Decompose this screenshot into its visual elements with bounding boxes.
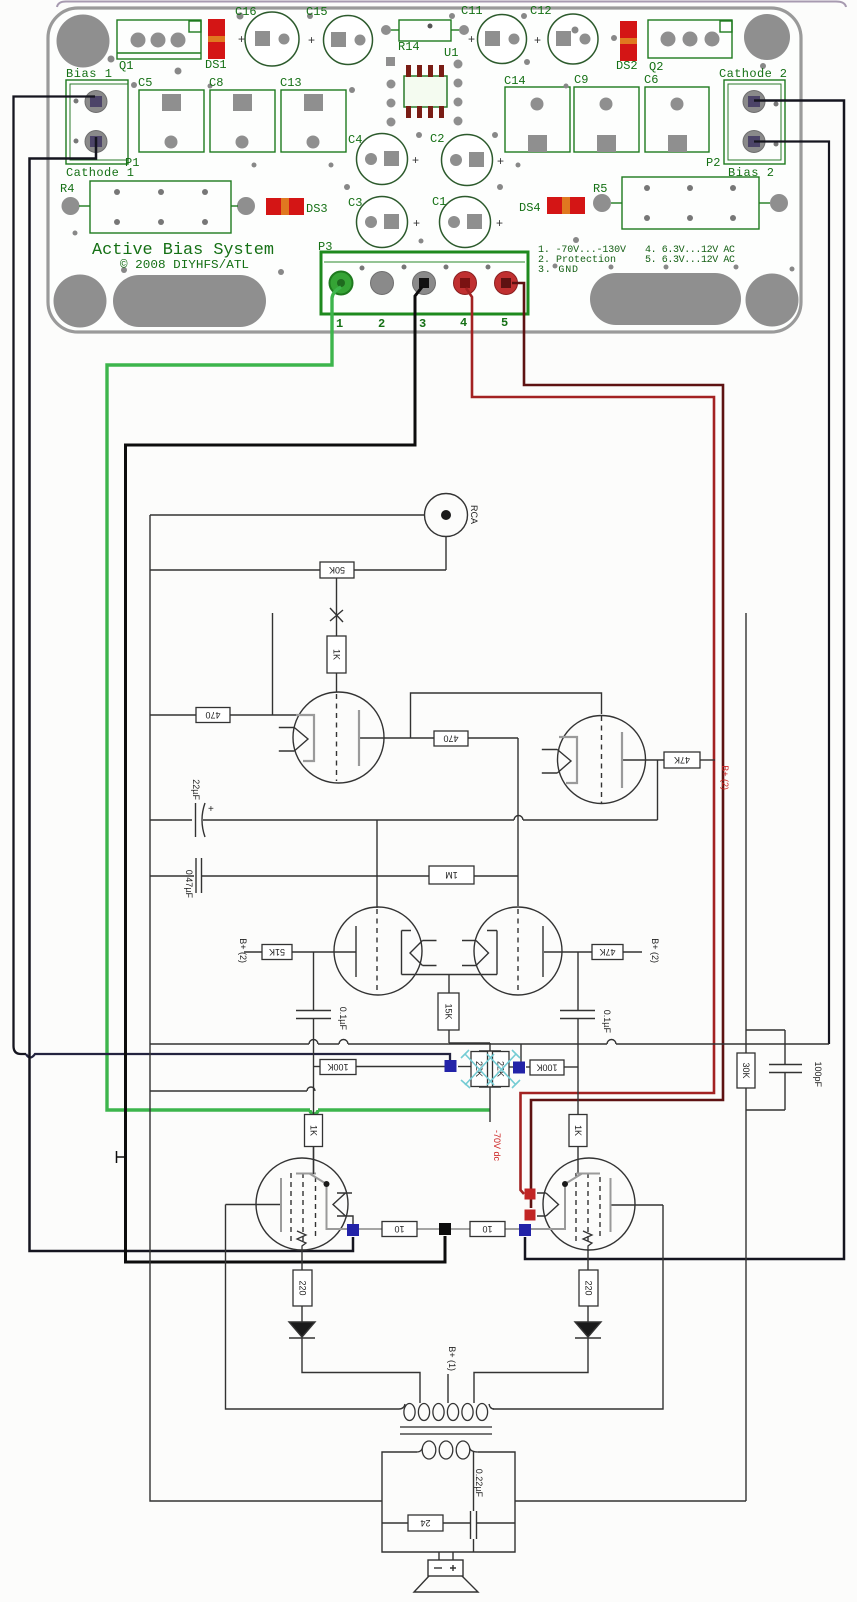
svg-text:4: 4 <box>460 316 467 330</box>
svg-text:5: 5 <box>501 316 508 330</box>
svg-text:0.1µF: 0.1µF <box>602 1010 612 1034</box>
svg-text:15K: 15K <box>444 1003 454 1019</box>
svg-text:R5: R5 <box>593 182 607 196</box>
svg-text:DS1: DS1 <box>205 58 227 72</box>
svg-text:C8: C8 <box>209 76 223 90</box>
svg-text:C11: C11 <box>461 4 483 18</box>
svg-text:Q2: Q2 <box>649 60 663 74</box>
svg-text:10: 10 <box>394 1224 404 1234</box>
svg-text:C6: C6 <box>644 73 658 87</box>
svg-text:+: + <box>497 154 504 168</box>
svg-text:P3: P3 <box>318 240 332 254</box>
svg-text:0.1µF: 0.1µF <box>338 1007 348 1031</box>
svg-text:DS3: DS3 <box>306 202 328 216</box>
svg-text:© 2008 DIYHFS/ATL: © 2008 DIYHFS/ATL <box>120 258 249 272</box>
svg-text:5. 6.3V...12V AC: 5. 6.3V...12V AC <box>645 255 735 266</box>
svg-text:+: + <box>208 804 214 815</box>
svg-text:1K: 1K <box>573 1125 583 1136</box>
svg-text:B+ (2): B+ (2) <box>238 938 248 963</box>
svg-text:RCA: RCA <box>469 505 479 524</box>
svg-text:10: 10 <box>482 1224 492 1234</box>
svg-text:3: 3 <box>419 317 426 331</box>
svg-text:Bias 2: Bias 2 <box>728 166 774 180</box>
svg-text:Cathode 1: Cathode 1 <box>66 166 134 180</box>
svg-text:22µF: 22µF <box>191 779 201 800</box>
svg-text:-70V dc: -70V dc <box>492 1130 502 1162</box>
svg-text:C3: C3 <box>348 196 362 210</box>
svg-text:B+ (2): B+ (2) <box>720 765 730 790</box>
svg-text:1M: 1M <box>445 870 458 880</box>
svg-text:U1: U1 <box>444 46 458 60</box>
svg-text:+: + <box>412 153 419 167</box>
svg-text:+: + <box>238 32 245 46</box>
svg-text:R4: R4 <box>60 182 74 196</box>
svg-text:C14: C14 <box>504 74 526 88</box>
svg-text:B+ (1): B+ (1) <box>447 1346 457 1371</box>
svg-text:C15: C15 <box>306 5 328 19</box>
svg-text:C12: C12 <box>530 4 552 18</box>
svg-text:Cathode 2: Cathode 2 <box>719 67 787 81</box>
svg-text:C2: C2 <box>430 132 444 146</box>
svg-text:0.47µF: 0.47µF <box>184 870 194 899</box>
svg-text:R14: R14 <box>398 40 420 54</box>
svg-text:47K: 47K <box>599 947 615 957</box>
svg-text:C4: C4 <box>348 133 362 147</box>
svg-text:470: 470 <box>205 710 220 720</box>
svg-text:100K: 100K <box>327 1062 348 1072</box>
svg-text:C13: C13 <box>280 76 302 90</box>
svg-text:DS4: DS4 <box>519 201 541 215</box>
svg-text:0.22µF: 0.22µF <box>474 1469 484 1498</box>
svg-text:24: 24 <box>420 1518 430 1528</box>
svg-text:30K: 30K <box>741 1062 751 1078</box>
svg-text:50K: 50K <box>329 565 345 575</box>
svg-text:220: 220 <box>298 1280 308 1295</box>
svg-text:P2: P2 <box>706 156 720 170</box>
svg-text:47K: 47K <box>674 755 690 765</box>
svg-text:100K: 100K <box>536 1063 557 1073</box>
svg-text:220: 220 <box>584 1280 594 1295</box>
svg-text:3. GND: 3. GND <box>538 265 578 276</box>
svg-text:C9: C9 <box>574 73 588 87</box>
svg-text:B+ (2): B+ (2) <box>650 938 660 963</box>
svg-text:1: 1 <box>336 317 343 331</box>
svg-text:+: + <box>534 33 541 47</box>
svg-text:+: + <box>496 216 503 230</box>
svg-text:C1: C1 <box>432 195 446 209</box>
svg-text:C5: C5 <box>138 76 152 90</box>
svg-text:+: + <box>413 216 420 230</box>
svg-text:1K: 1K <box>309 1125 319 1136</box>
svg-text:C16: C16 <box>235 5 257 19</box>
svg-text:Bias 1: Bias 1 <box>66 67 112 81</box>
svg-text:+: + <box>308 33 315 47</box>
svg-text:1K: 1K <box>332 649 342 660</box>
svg-text:2: 2 <box>378 317 385 331</box>
svg-text:470: 470 <box>443 734 458 744</box>
svg-text:51K: 51K <box>269 947 285 957</box>
svg-text:DS2: DS2 <box>616 59 638 73</box>
svg-text:P1: P1 <box>125 156 139 170</box>
svg-text:100pF: 100pF <box>813 1061 823 1087</box>
svg-text:Q1: Q1 <box>119 59 133 73</box>
svg-text:+: + <box>468 32 475 46</box>
